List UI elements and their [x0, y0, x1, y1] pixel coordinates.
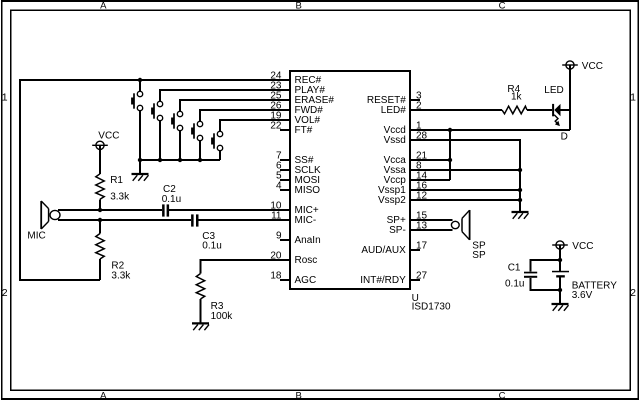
pin 25 (ERASE#) — [270, 91, 290, 102]
wire MIC+ net: mic to C2 to pin10 — [58, 209, 290, 211]
junction battery - node — [558, 288, 562, 292]
svg-text:SP-: SP- — [389, 225, 406, 236]
junction bus SW4 — [198, 158, 202, 162]
pin 24 (REC#) — [270, 71, 290, 82]
pushbutton SW1 (REC) — [131, 91, 143, 110]
ground button bus — [132, 174, 149, 181]
svg-text:AUD/AUX: AUD/AUX — [361, 245, 406, 256]
pin 5 (MOSI) — [276, 171, 290, 182]
pushbutton SW2 (PLAY) — [151, 101, 163, 120]
capacitor C1 0.1u — [505, 263, 537, 290]
svg-text:SP: SP — [472, 250, 486, 261]
svg-text:MISO: MISO — [295, 185, 321, 196]
wire ERASE# net: SW3 to pin25 — [180, 100, 290, 111]
pin 12 (Vssp2) — [410, 191, 428, 202]
wire SW1 top lead — [139, 80, 141, 91]
svg-text:3.3k: 3.3k — [111, 270, 131, 281]
pin 13 (SP-) — [410, 221, 428, 232]
svg-text:1k: 1k — [511, 91, 523, 102]
junction Vssp1 / Vss bus — [518, 188, 522, 192]
junction battery + node — [558, 258, 562, 262]
pin 23 (PLAY#) — [270, 81, 290, 92]
pin 11 (MIC-) — [271, 211, 290, 222]
wire R2 top lead — [99, 220, 101, 234]
wire Vssd net: pin28 to ground bus — [410, 140, 520, 211]
pin 19 (VOL#) — [270, 111, 290, 122]
battery BATTERY 3.6V — [552, 260, 617, 301]
pin 27 (INT#/RDY) — [410, 271, 428, 282]
wire Vssp2 net: pin12 — [410, 199, 520, 201]
ground Vss bus — [512, 212, 529, 219]
svg-text:3.3k: 3.3k — [110, 192, 130, 203]
svg-text:AGC: AGC — [295, 275, 317, 286]
svg-text:0.1u: 0.1u — [505, 279, 524, 290]
wire R1 bottom lead to MIC+ node — [99, 199, 101, 210]
svg-text:C: C — [499, 1, 506, 12]
wire R4 to LED — [527, 109, 552, 111]
wire LED to VCC rail — [561, 109, 571, 111]
svg-text:C: C — [499, 390, 506, 400]
svg-text:VCC: VCC — [582, 61, 603, 72]
pin 16 (Vssp1) — [410, 181, 428, 192]
junction Vccd / Vcc bus — [448, 128, 452, 132]
pin 10 (MIC+) — [270, 201, 290, 212]
capacitor C2 0.1u — [162, 184, 181, 217]
svg-text:A: A — [100, 390, 107, 400]
resistor R3 100k — [196, 274, 233, 322]
svg-text:VCC: VCC — [572, 241, 593, 252]
pin 14 (Vccp) — [410, 171, 428, 182]
pushbutton SW4 (FWD) — [191, 121, 203, 140]
wire MIC- net: mic to C3 to pin11 — [58, 219, 290, 221]
pin 3 (RESET#) — [410, 91, 422, 102]
wire SP- net: pin13 to speaker — [410, 229, 453, 231]
svg-text:MIC: MIC — [27, 231, 45, 242]
pin 1 (Vccd) — [410, 121, 422, 132]
svg-text:B: B — [296, 390, 302, 400]
svg-text:MIC-: MIC- — [295, 215, 317, 226]
wire LED# net: pin2 to R4 — [410, 109, 502, 111]
wire R3 bottom lead — [200, 299, 202, 322]
svg-text:18: 18 — [270, 271, 282, 282]
ground R3 — [192, 323, 209, 330]
svg-text:3.6V: 3.6V — [572, 290, 593, 301]
pushbutton SW3 (ERASE) — [171, 111, 183, 130]
junction MIC- node — [98, 218, 102, 222]
pushbutton SW5 (VOL) — [211, 131, 223, 150]
svg-text:22: 22 — [270, 121, 282, 132]
svg-text:B: B — [296, 1, 302, 12]
wire C1 bottom lead — [531, 278, 561, 290]
svg-text:LED: LED — [544, 85, 563, 96]
svg-text:9: 9 — [276, 231, 282, 242]
junction MIC+ node — [98, 208, 102, 212]
microphone MIC — [27, 201, 60, 242]
pin 17 (AUD/AUX) — [410, 241, 428, 252]
wire VOL# net: SW5 to pin19 — [220, 120, 290, 131]
svg-text:27: 27 — [416, 271, 428, 282]
wire SP+ net: pin15 to speaker — [410, 219, 453, 221]
wire R2 bottom lead — [99, 259, 101, 280]
ground battery — [552, 304, 569, 311]
wire Vcca net: pin21 — [410, 159, 450, 161]
svg-text:Rosc: Rosc — [295, 255, 318, 266]
svg-text:C1: C1 — [508, 263, 521, 274]
svg-text:2: 2 — [630, 287, 636, 299]
capacitor C3 0.1u — [191, 214, 222, 251]
wire Vssp1 net: pin16 — [410, 189, 520, 191]
pin 9 (AnaIn) — [276, 231, 290, 242]
svg-text:2: 2 — [2, 287, 8, 299]
svg-text:FT#: FT# — [295, 125, 313, 136]
svg-text:1: 1 — [2, 92, 8, 104]
wire button common bus to ground — [140, 111, 220, 173]
junction bus SW1 — [138, 158, 142, 162]
pin 8 (Vssa) — [410, 161, 422, 172]
pin 6 (SCLK) — [276, 161, 290, 172]
pin 15 (SP+) — [410, 211, 428, 222]
power symbol VCC (top right, LED/Vccd) — [562, 61, 603, 130]
svg-text:AnaIn: AnaIn — [295, 235, 321, 246]
op-amp/IC U ISD1730 body — [290, 71, 451, 312]
svg-text:Vssp2: Vssp2 — [378, 195, 406, 206]
svg-text:A: A — [100, 1, 107, 12]
wire Vccd net: pin1 to VCC rail — [410, 129, 570, 131]
wire VCC node to C1 — [531, 260, 561, 272]
junction Vcca / Vcc bus — [448, 158, 452, 162]
resistor R4 1k — [502, 84, 527, 114]
svg-text:INT#/RDY: INT#/RDY — [360, 275, 406, 286]
junction Vssp2 / Vss bus — [518, 198, 522, 202]
wire REC# net: pin24 to buttons and loop to R2 — [20, 80, 290, 280]
svg-text:ISD1730: ISD1730 — [412, 301, 451, 312]
svg-text:4: 4 — [276, 181, 282, 192]
svg-text:17: 17 — [416, 241, 428, 252]
pin 21 (Vcca) — [410, 151, 428, 162]
pin 18 (AGC) — [270, 271, 290, 282]
svg-text:R1: R1 — [110, 175, 123, 186]
pin 2 (LED#) — [410, 101, 422, 112]
svg-text:100k: 100k — [211, 311, 234, 322]
svg-text:Vssd: Vssd — [384, 135, 406, 146]
wire Vccp net: pin14 — [410, 179, 450, 181]
pin 26 (FWD#) — [270, 101, 290, 112]
wire battery ground lead — [559, 290, 561, 303]
svg-text:1: 1 — [630, 92, 636, 104]
junction REC# line / SW1 — [138, 78, 142, 82]
speaker SP — [451, 210, 486, 261]
junction bus SW3 — [178, 158, 182, 162]
svg-text:LED#: LED# — [381, 105, 406, 116]
svg-text:0.1u: 0.1u — [202, 240, 221, 251]
pin 28 (Vssd) — [410, 131, 428, 142]
resistor R2 3.3k — [96, 234, 132, 282]
svg-text:D: D — [561, 131, 568, 142]
wire Vssa net: pin8 — [410, 169, 520, 171]
wire FWD# net: SW4 to pin26 — [200, 110, 290, 121]
power symbol VCC (left, R1 pull-up) — [92, 131, 119, 174]
pin 7 (SS#) — [276, 151, 290, 162]
wire PLAY# net: SW2 to pin23 — [160, 90, 290, 101]
power symbol VCC (battery node) — [552, 241, 593, 260]
wire Vcc bus vertical — [449, 130, 451, 180]
svg-text:VCC: VCC — [98, 131, 119, 142]
pin 4 (MISO) — [276, 181, 290, 192]
pin 20 (Rosc) — [270, 251, 290, 262]
svg-text:0.1u: 0.1u — [162, 194, 181, 205]
junction bus SW2 — [158, 158, 162, 162]
junction Vssa / Vss bus — [518, 168, 522, 172]
LED D — [544, 85, 568, 142]
pin 22 (FT#) — [270, 121, 290, 132]
resistor R1 3.3k — [96, 174, 130, 203]
wire Rosc net: pin20 to R3 — [201, 260, 291, 274]
